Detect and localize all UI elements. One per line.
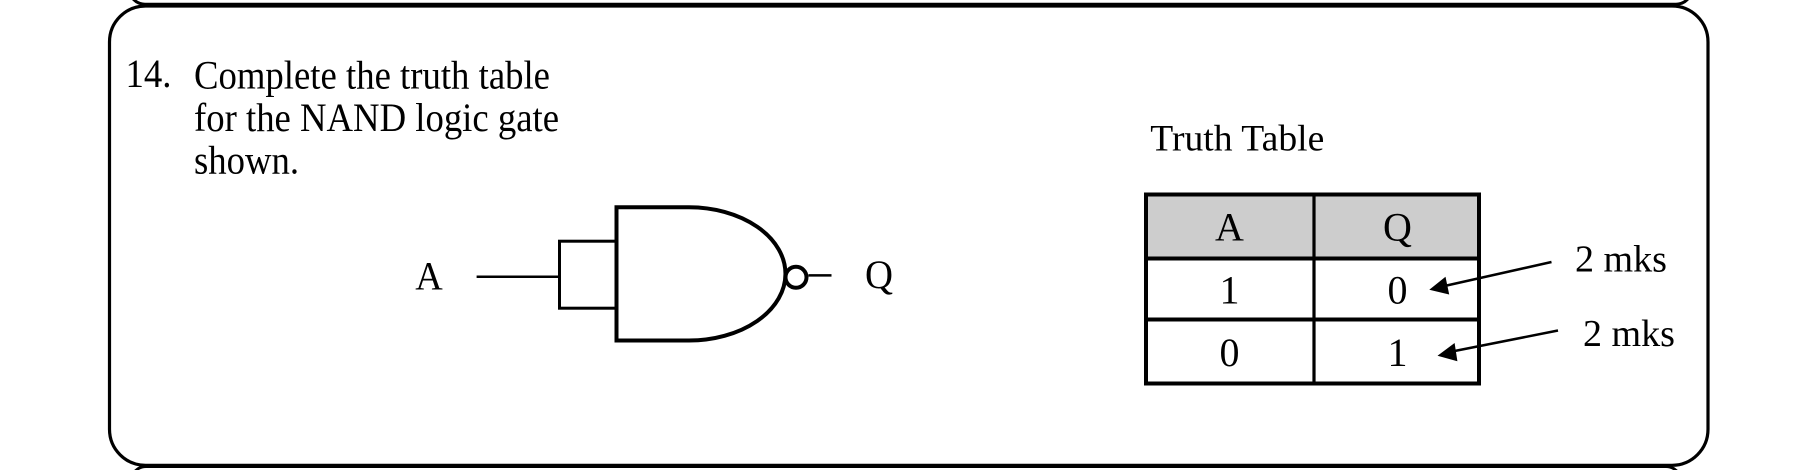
wire (output Q) (809, 274, 832, 277)
svg-text:shown.: shown. (194, 138, 299, 183)
svg-text:1: 1 (1220, 268, 1240, 313)
svg-text:Q: Q (1383, 205, 1412, 250)
svg-text:Truth Table: Truth Table (1150, 118, 1324, 159)
svg-text:1: 1 (1388, 330, 1408, 375)
svg-text:for the NAND logic gate: for the NAND logic gate (194, 95, 559, 140)
input rectangle on NAND gate (560, 241, 617, 308)
truth table grid (1144, 193, 1481, 386)
arrow 1 line (1440, 262, 1552, 287)
arrow 2 line (1447, 331, 1558, 353)
svg-text:2 mks: 2 mks (1583, 313, 1675, 355)
svg-text:A: A (1215, 205, 1244, 250)
arrow 1 head (1429, 277, 1449, 295)
svg-text:A: A (415, 254, 443, 299)
NAND gate inversion bubble (786, 267, 807, 288)
svg-text:Complete the truth table: Complete the truth table (194, 53, 550, 98)
arrow 2 head (1438, 343, 1458, 361)
truth table header fill (1146, 195, 1479, 259)
svg-text:14.: 14. (126, 51, 172, 96)
svg-text:0: 0 (1220, 330, 1240, 375)
svg-text:0: 0 (1388, 268, 1408, 313)
wire (input A) (477, 276, 560, 279)
previous question box (bottom sliver) (129, 0, 1692, 4)
next question box (top sliver) (131, 467, 1681, 470)
NAND gate U1 body (617, 207, 786, 340)
svg-text:Q: Q (865, 252, 893, 297)
svg-text:2 mks: 2 mks (1575, 238, 1667, 280)
